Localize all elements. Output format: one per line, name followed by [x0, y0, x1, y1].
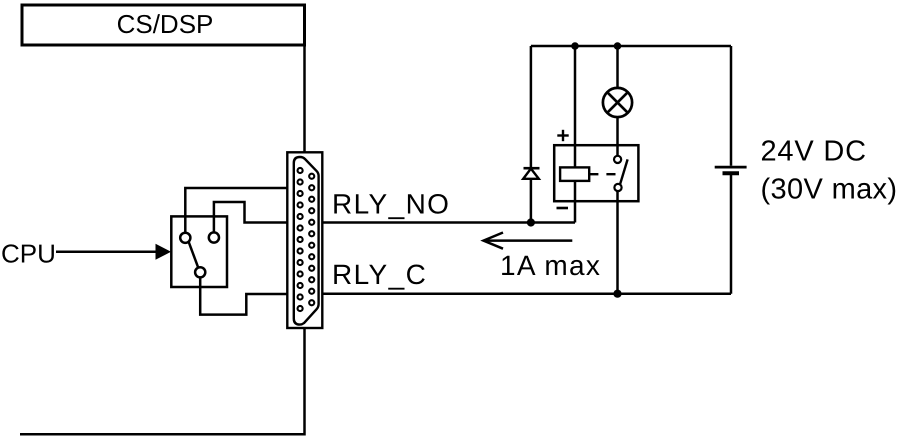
relay contact lever: [189, 242, 199, 268]
wire: relay coil branch vertical: [574, 46, 577, 223]
svg-text:24V DC: 24V DC: [761, 135, 867, 167]
svg-text:1A max: 1A max: [500, 250, 601, 281]
diode D1 triangle: [523, 169, 539, 179]
wire: lamp/switch branch vertical (top): [616, 46, 619, 157]
connector J1 (DB25) outer body: [287, 152, 322, 328]
current direction arrowhead (open): [484, 233, 504, 249]
box CS/DSP: [22, 5, 305, 45]
relay K1 plus terminal label: [557, 130, 568, 141]
junction dot RLY_NO / diode: [527, 218, 535, 226]
diode D1 cathode bar: [524, 167, 540, 170]
battery BT1 long plate: [715, 166, 747, 169]
relay K1 switch lever: [620, 159, 628, 184]
relay K1 mechanical link dashes: [589, 173, 615, 175]
junction dot top rail / lamp: [614, 42, 622, 50]
CPU control arrowhead: [156, 244, 172, 260]
wire: switch to bottom rail vertical: [616, 191, 619, 294]
wire: battery vertical top: [730, 46, 733, 166]
wire: battery vertical bottom: [730, 175, 733, 294]
relay contact box (CPU side): [171, 216, 227, 287]
wire RLY_NO: connector to relay coil: [322, 221, 576, 224]
svg-text:RLY_NO: RLY_NO: [332, 189, 450, 220]
wire from connector bottom down and left (system boundary): [20, 328, 305, 434]
relay contact terminal bottom: [195, 267, 205, 277]
relay K1 minus terminal label: [557, 207, 569, 210]
wire RLY_C: connector to battery bottom rail: [322, 292, 732, 295]
junction dot top rail / coil: [571, 42, 579, 50]
wire: top-left contact to connector: [185, 188, 288, 233]
svg-text:(30V max): (30V max): [761, 173, 898, 205]
svg-text:CPU: CPU: [1, 239, 56, 269]
wire from CS/DSP box to connector top: [303, 45, 306, 153]
connector J1 inner D-shell: [294, 157, 319, 325]
current direction arrow shaft: [485, 239, 572, 242]
wire: top-right contact to connector: [214, 202, 288, 233]
relay K1 switch bottom contact: [614, 184, 621, 191]
wire: diode branch vertical: [530, 46, 533, 223]
lamp DS1: [603, 88, 632, 117]
junction dot RLY_C / switch: [613, 290, 621, 298]
wire: bottom contact to connector: [200, 277, 288, 315]
relay K1 coil: [560, 167, 589, 181]
top supply rail: [531, 45, 731, 48]
svg-text:RLY_C: RLY_C: [332, 259, 427, 290]
relay K1 switch top contact: [614, 156, 621, 163]
battery BT1 short plate: [723, 171, 740, 175]
relay contact terminal top-left: [180, 233, 190, 243]
relay contact terminal top-right: [209, 232, 219, 242]
connector J1 pins right column (12 pins): [309, 174, 314, 306]
svg-text:CS/DSP: CS/DSP: [117, 9, 214, 39]
relay K1 box: [554, 145, 638, 201]
connector J1 pins left column (13 pins): [298, 168, 303, 311]
CPU control arrow shaft: [56, 251, 158, 254]
